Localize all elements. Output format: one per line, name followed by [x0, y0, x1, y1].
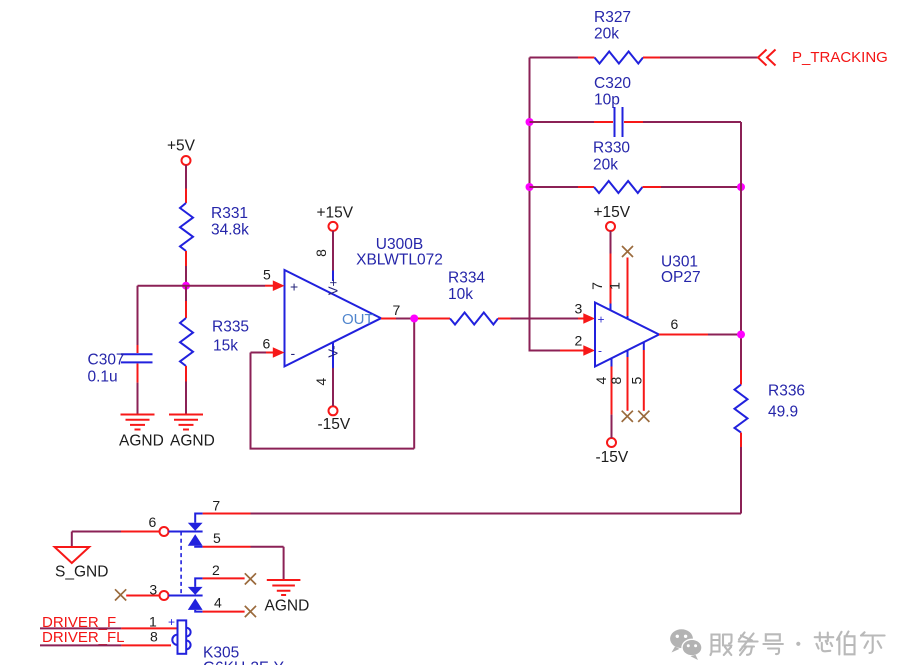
svg-text:6: 6: [149, 514, 157, 530]
svg-text:C320: C320: [594, 75, 631, 92]
svg-text:V+: V+: [326, 279, 341, 295]
wire pin 5 to AGND: [203, 546, 251, 548]
pin 5 lead: [195, 546, 202, 547]
wire S_GND to pin 6: [72, 531, 121, 533]
power -15V U301: [607, 438, 616, 447]
svg-text:8: 8: [313, 249, 329, 257]
svg-text:5: 5: [263, 267, 271, 283]
svg-text:+: +: [598, 313, 605, 327]
wire right vertical rail: [740, 122, 742, 370]
resistor R327: [595, 52, 644, 64]
svg-text:6: 6: [263, 336, 271, 352]
pin 2 lead: [195, 578, 202, 587]
wire R330 row: [530, 186, 579, 188]
svg-text:0.1u: 0.1u: [88, 368, 118, 385]
svg-text:5: 5: [213, 530, 221, 546]
pin 6 arrow U300B: [273, 347, 285, 358]
svg-text:+: +: [168, 615, 175, 629]
svg-text:DRIVER_FL: DRIVER_FL: [42, 629, 125, 646]
pin 8 wire U301: [627, 350, 629, 357]
svg-text:2: 2: [575, 333, 583, 349]
no-connect X pin1: [622, 246, 633, 257]
wire R331 to node: [185, 251, 187, 266]
no-connect X pin5: [638, 411, 649, 422]
ground S_GND: [71, 532, 73, 547]
node junction U301 output: [737, 331, 745, 339]
svg-text:6: 6: [671, 316, 679, 332]
svg-text:15k: 15k: [213, 337, 238, 354]
port P_TRACKING chevron: [758, 50, 776, 66]
svg-text:-: -: [291, 345, 296, 361]
wire to U301 pin2: [560, 350, 584, 352]
svg-text:R331: R331: [211, 205, 248, 222]
svg-text:R327: R327: [594, 9, 631, 26]
svg-text:5: 5: [629, 376, 645, 384]
svg-text:8: 8: [150, 628, 158, 644]
svg-text:3: 3: [575, 301, 583, 317]
svg-text:R335: R335: [212, 318, 249, 335]
svg-text:10k: 10k: [448, 286, 473, 303]
resistor R331: [180, 203, 193, 251]
pin 2 arrow U301: [583, 345, 595, 356]
contact arrow up (to pin 5): [188, 534, 203, 546]
pin 6 output wire U301: [659, 334, 708, 336]
svg-text:-: -: [598, 344, 602, 358]
relay actuator dashed link: [180, 532, 182, 596]
svg-text:7: 7: [393, 302, 401, 318]
pin 4 wire U301: [611, 358, 613, 366]
svg-text:R334: R334: [448, 269, 485, 286]
pin 4 wire U300B: [332, 343, 334, 369]
svg-text:1: 1: [149, 613, 157, 629]
svg-text:OUT: OUT: [342, 311, 374, 328]
svg-text:4: 4: [214, 595, 222, 611]
svg-text:8: 8: [608, 376, 624, 384]
no-connect X pin4: [245, 606, 256, 617]
svg-text:G6KU-2F-Y: G6KU-2F-Y: [203, 659, 284, 665]
watermark wechat icon: [670, 629, 702, 660]
pin 4 lead: [195, 610, 202, 612]
node junction at C320 row left: [526, 118, 534, 126]
wire DRIVER_FL: [40, 644, 121, 646]
svg-text:+15V: +15V: [594, 204, 631, 221]
wire R327 row left segment: [530, 57, 579, 59]
svg-text:S_GND: S_GND: [55, 564, 108, 581]
svg-text:20k: 20k: [594, 26, 619, 43]
wire DRIVER_F: [40, 627, 121, 629]
svg-text:R330: R330: [593, 140, 630, 157]
node junction divider: [182, 282, 190, 290]
pin 6 open contact: [160, 527, 169, 536]
op-amp U300B: [285, 270, 382, 366]
svg-text:R336: R336: [768, 383, 805, 400]
pin 7 lead: [195, 514, 202, 523]
svg-text:1: 1: [606, 282, 622, 290]
resistor R334: [450, 313, 498, 325]
svg-text:3: 3: [149, 582, 157, 598]
contact arrow down (to pin 2): [188, 587, 203, 595]
svg-text:7: 7: [589, 282, 605, 290]
svg-text:AGND: AGND: [170, 432, 215, 449]
watermark text (CJK approximated strokes): [711, 632, 885, 656]
svg-text:OP27: OP27: [661, 269, 701, 286]
svg-text:U300B: U300B: [376, 236, 423, 253]
resistor R330: [594, 181, 643, 193]
svg-text:49.9: 49.9: [768, 403, 798, 420]
wire +5V to R331: [185, 165, 187, 189]
svg-text:10p: 10p: [594, 92, 620, 109]
wire node to U300B pin5: [138, 285, 266, 287]
svg-text:4: 4: [593, 376, 609, 384]
power -15V U300B: [329, 406, 338, 415]
wire long run to relay pin7: [251, 513, 742, 515]
svg-text:P_TRACKING: P_TRACKING: [792, 49, 888, 66]
contact arrow down (to pin 7): [188, 523, 203, 531]
no-connect X pin2: [245, 573, 256, 584]
svg-text:+: +: [290, 279, 298, 295]
pin 8 wire U300B: [332, 231, 334, 271]
node junction at R330 row right: [737, 183, 745, 191]
svg-text:34.8k: 34.8k: [211, 221, 249, 238]
no-connect X pin3: [115, 589, 126, 600]
node junction at R330 row left: [526, 183, 534, 191]
svg-text:AGND: AGND: [119, 432, 164, 449]
svg-text:V-: V-: [326, 345, 341, 357]
pin 7 wire U301: [610, 231, 612, 254]
pin 3 arrow U301: [583, 313, 595, 324]
svg-text:AGND: AGND: [265, 598, 310, 615]
wire R327 row right segment: [643, 57, 660, 59]
contact arrow up (to pin 4): [188, 598, 203, 610]
capacitor C320: [615, 107, 623, 137]
svg-text:XBLWTL072: XBLWTL072: [356, 252, 443, 269]
svg-text:C307: C307: [88, 352, 125, 369]
pin 5 wire U301: [643, 342, 645, 350]
no-connect X pin8: [622, 411, 633, 422]
svg-text:7: 7: [212, 497, 220, 513]
svg-text:20k: 20k: [593, 157, 618, 174]
pin 3 open contact: [160, 591, 169, 600]
svg-text:+5V: +5V: [167, 138, 196, 155]
ground AGND under C307: [121, 415, 155, 430]
svg-text:4: 4: [313, 378, 329, 386]
wire C320 row: [530, 121, 595, 123]
svg-text:+15V: +15V: [317, 204, 354, 221]
ground AGND relay: [267, 580, 301, 595]
resistor R335: [185, 286, 187, 301]
node junction U300B output: [410, 315, 418, 323]
pin 5 arrow U300B: [273, 280, 285, 291]
ground AGND under R335: [169, 415, 203, 430]
capacitor C307: [121, 354, 153, 362]
svg-text:2: 2: [212, 562, 220, 578]
wire U300B pin6 feedback loop: [266, 352, 274, 354]
pin 7 output wire U300B: [381, 318, 396, 320]
wire left vertical rail from R327 row down to U301 pin2: [530, 58, 561, 351]
wire node down to C307: [137, 286, 139, 345]
op-amp U301: [595, 303, 659, 367]
pin 1 wire U301: [627, 258, 629, 317]
resistor R336: [740, 370, 742, 385]
svg-text:-15V: -15V: [318, 416, 351, 433]
svg-text:-15V: -15V: [596, 449, 629, 466]
